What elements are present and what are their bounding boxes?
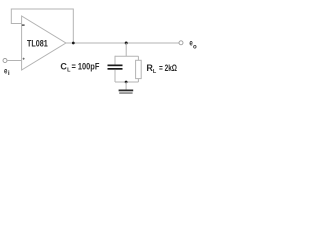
input terminal circle (3, 59, 7, 63)
svg-text:o: o (193, 44, 197, 51)
wire capacitor top lead (114, 56, 116, 65)
wire load drop (125, 43, 127, 56)
node feedback tap dot (72, 42, 75, 45)
wire resistor top lead (137, 56, 139, 60)
wire feedback loop from output to inverting input (11, 9, 73, 43)
svg-text:= 100pF: = 100pF (72, 61, 100, 71)
capacitor CL plates (108, 65, 123, 70)
node load tap dot (125, 42, 128, 45)
output terminal circle (179, 41, 183, 45)
op-amp U1 TL081 triangle (22, 16, 66, 70)
svg-text:= 2kΩ: = 2kΩ (159, 63, 177, 73)
wire bottom rail (115, 81, 138, 83)
svg-text:i: i (8, 70, 10, 77)
svg-text:TL081: TL081 (27, 38, 48, 48)
pin - (inverting input marker) (22, 25, 25, 26)
wire output (66, 42, 179, 44)
wire ground lead (125, 82, 127, 90)
resistor RL box (136, 60, 142, 78)
node ground tap dot (125, 81, 128, 84)
wire capacitor bottom lead (114, 70, 116, 82)
wire T-bar split (115, 55, 138, 57)
pin + (non-inverting input marker) (23, 58, 25, 60)
wire input to + (7, 60, 21, 62)
ground symbol (119, 90, 134, 94)
wire resistor bottom lead (137, 79, 139, 82)
